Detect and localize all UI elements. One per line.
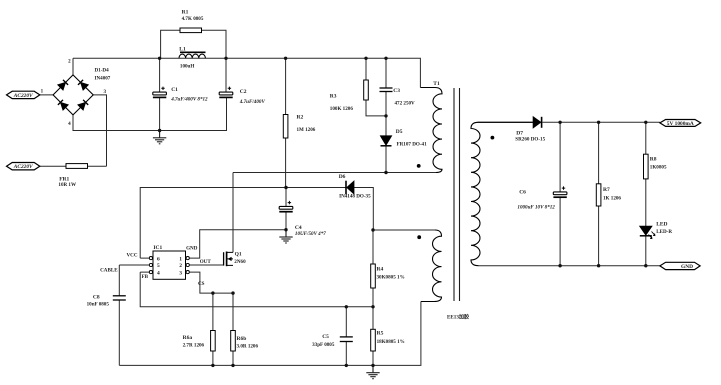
svg-text:T1: T1: [433, 81, 440, 87]
svg-text:C4: C4: [295, 225, 302, 231]
svg-text:100K 1206: 100K 1206: [330, 106, 354, 112]
svg-text:1K0805: 1K0805: [650, 165, 667, 171]
svg-text:1: 1: [41, 88, 44, 94]
svg-text:C8: C8: [93, 295, 100, 301]
svg-text:D1-D4: D1-D4: [95, 67, 110, 73]
svg-text:D6: D6: [339, 174, 346, 180]
svg-text:SR260 DO-15: SR260 DO-15: [515, 136, 545, 142]
svg-text:GND: GND: [681, 264, 693, 270]
svg-text:1: 1: [179, 256, 182, 262]
svg-text:2.7R 1206: 2.7R 1206: [183, 343, 205, 349]
svg-text:R5: R5: [377, 330, 384, 336]
svg-text:Q1: Q1: [235, 252, 242, 258]
svg-text:FR107 DO-41: FR107 DO-41: [397, 142, 428, 148]
svg-text:R3: R3: [330, 93, 337, 99]
svg-text:LED-R: LED-R: [656, 229, 672, 235]
svg-text:1000uF 10V 8*12: 1000uF 10V 8*12: [517, 204, 555, 211]
svg-text:CABLE: CABLE: [100, 267, 118, 273]
svg-text:CS: CS: [198, 281, 205, 287]
svg-text:1M 1206: 1M 1206: [297, 127, 316, 133]
svg-text:5: 5: [157, 263, 160, 269]
svg-text:472 250V: 472 250V: [395, 100, 416, 106]
svg-text:3: 3: [179, 270, 182, 276]
svg-text:30K0805 1%: 30K0805 1%: [377, 274, 405, 280]
svg-text:IC1: IC1: [153, 245, 162, 251]
svg-text:OUT: OUT: [200, 259, 212, 265]
svg-text:10UF/50V 4*7: 10UF/50V 4*7: [295, 230, 326, 237]
svg-text:4: 4: [68, 121, 71, 127]
svg-text:33pF 0805: 33pF 0805: [312, 342, 335, 348]
svg-text:R6b: R6b: [237, 336, 247, 342]
svg-text:LED: LED: [656, 221, 667, 227]
svg-text:2: 2: [68, 58, 71, 64]
svg-text:2: 2: [179, 263, 182, 269]
svg-text:18K0805 1%: 18K0805 1%: [377, 339, 405, 345]
svg-text:6: 6: [157, 256, 160, 262]
svg-text:L1: L1: [179, 46, 186, 52]
svg-text:R4: R4: [377, 266, 384, 272]
svg-text:R8: R8: [650, 156, 657, 162]
svg-text:C2: C2: [240, 89, 247, 95]
svg-text:R6a: R6a: [183, 335, 193, 341]
svg-text:4: 4: [157, 270, 160, 276]
svg-text:4.7K 0805: 4.7K 0805: [182, 16, 204, 22]
svg-text:AC220V: AC220V: [13, 164, 33, 170]
svg-text:10R 1W: 10R 1W: [58, 182, 77, 188]
svg-text:R1: R1: [182, 9, 189, 15]
svg-text:D5: D5: [396, 129, 403, 135]
svg-text:1K 1206: 1K 1206: [603, 196, 621, 202]
svg-text:IN4148 DO-35: IN4148 DO-35: [339, 193, 371, 199]
svg-text:4.7uF/400V: 4.7uF/400V: [239, 99, 266, 105]
svg-text:100uH: 100uH: [180, 64, 194, 70]
svg-text:4.7uF/400V 8*12: 4.7uF/400V 8*12: [170, 96, 208, 103]
svg-text:IN4007: IN4007: [95, 76, 111, 82]
svg-text:R7: R7: [603, 187, 610, 193]
svg-text:FB: FB: [142, 274, 149, 280]
svg-text:C6: C6: [519, 189, 526, 195]
svg-text:C1: C1: [171, 87, 178, 93]
svg-text:AC220V: AC220V: [13, 93, 33, 99]
svg-text:3: 3: [104, 89, 107, 95]
svg-text:3.0R 1206: 3.0R 1206: [237, 344, 259, 350]
svg-text:VCC: VCC: [127, 252, 138, 258]
svg-text:R2: R2: [297, 115, 304, 121]
svg-text:C3: C3: [393, 88, 400, 94]
svg-text:EE13加胶: EE13加胶: [447, 313, 470, 320]
svg-text:C5: C5: [322, 334, 329, 340]
svg-text:5V 1000mA: 5V 1000mA: [667, 121, 694, 127]
svg-text:2N60: 2N60: [234, 259, 246, 265]
svg-text:GND: GND: [186, 245, 198, 251]
svg-text:10nF 0805: 10nF 0805: [87, 301, 110, 307]
